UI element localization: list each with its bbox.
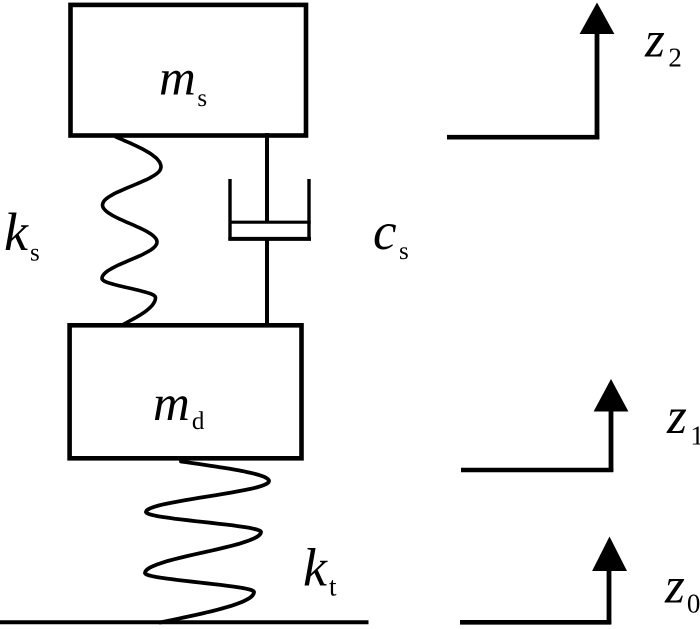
svg-text:z0: z0: [664, 559, 700, 619]
svg-text:kt: kt: [303, 538, 337, 602]
svg-text:ks: ks: [4, 202, 40, 267]
svg-text:z1: z1: [666, 389, 700, 451]
svg-text:z2: z2: [644, 13, 682, 73]
svg-text:md: md: [153, 376, 205, 435]
svg-text:cs: cs: [373, 203, 409, 265]
svg-text:ms: ms: [159, 51, 207, 113]
